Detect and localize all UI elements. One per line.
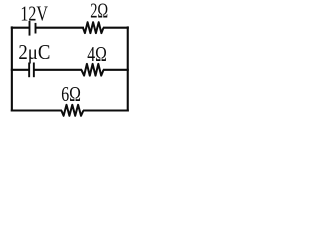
- wire battery to R1: [36, 27, 85, 29]
- wire left rail: [11, 26, 13, 111]
- battery V1 short plate: [35, 23, 37, 34]
- wire mid-left to capacitor: [11, 69, 29, 71]
- battery V1 long plate: [29, 21, 31, 36]
- svg-text:12V: 12V: [20, 4, 48, 26]
- resistor R3 6-ohm zigzag: [61, 105, 83, 116]
- svg-text:6Ω: 6Ω: [61, 84, 81, 106]
- svg-text:2Ω: 2Ω: [90, 0, 108, 22]
- wire top-left to battery: [11, 27, 30, 29]
- wire right rail: [127, 26, 129, 111]
- wire bottom-left to R3: [11, 109, 62, 111]
- capacitor C1 left plate: [28, 63, 30, 78]
- resistor R1 2-ohm zigzag: [83, 22, 104, 33]
- wire R1 to top-right: [103, 27, 129, 29]
- wire capacitor to R2: [34, 69, 82, 71]
- resistor R2 4-ohm zigzag: [81, 64, 103, 76]
- svg-text:4Ω: 4Ω: [87, 44, 107, 66]
- svg-text:2μC: 2μC: [18, 42, 50, 64]
- wire R3 to bottom-right: [83, 109, 129, 111]
- capacitor C1 right plate: [33, 63, 35, 78]
- wire R2 to mid-right: [103, 69, 129, 71]
